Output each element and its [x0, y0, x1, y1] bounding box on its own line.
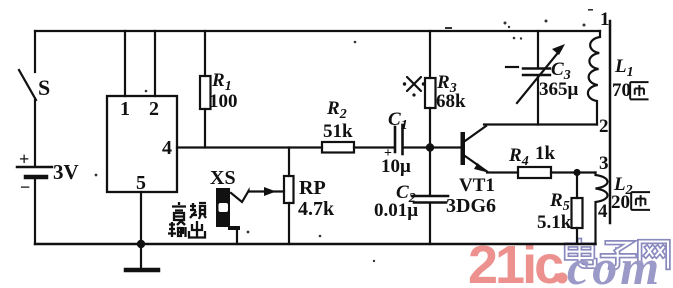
label audio output line2 (shu chu): [168, 221, 205, 238]
svg-text:1k: 1k: [535, 143, 556, 164]
node base junction: [426, 143, 434, 151]
wire emitter rail: [487, 171, 518, 173]
transistor Q1 VT1: [461, 132, 466, 165]
svg-text:4.7k: 4.7k: [298, 198, 335, 220]
wire collector rail: [484, 123, 597, 125]
svg-text:70: 70: [612, 80, 631, 101]
reference mark: [407, 77, 421, 91]
main circuit ink: [17, 21, 610, 270]
node pin5 ground junction: [137, 240, 145, 248]
svg-text:5.1k: 5.1k: [537, 212, 572, 233]
wire pin5 to bottom rail: [140, 192, 142, 244]
resistor R4: [518, 167, 551, 178]
ferrite rod core: [609, 21, 612, 223]
wire bottom rail: [35, 243, 596, 246]
svg-text:2: 2: [149, 98, 159, 120]
svg-text:365μ: 365μ: [539, 79, 579, 100]
switch S blade: [19, 70, 36, 100]
resistor R1: [204, 31, 206, 76]
wire left rail lower: [34, 179, 36, 244]
svg-text:1: 1: [120, 98, 130, 120]
svg-text:−: −: [20, 177, 30, 197]
label audio output line1 (yin pin): [172, 202, 206, 220]
resistor R3: [429, 31, 431, 78]
wire pin4 rail: [177, 146, 322, 148]
svg-text:4: 4: [162, 137, 172, 159]
svg-text:S: S: [38, 75, 50, 100]
wire left rail upper: [34, 31, 36, 72]
svg-text:3: 3: [599, 153, 609, 174]
ground: [140, 244, 142, 269]
svg-text:RP: RP: [299, 177, 326, 199]
svg-text:68k: 68k: [436, 91, 466, 112]
watermark 21ic: [468, 235, 568, 288]
capacitor C1: [394, 127, 397, 152]
wire pin1 to top rail: [124, 31, 126, 96]
capacitor C2: [429, 148, 431, 196]
connector XS jack: [216, 188, 230, 227]
potentiometer RP wiper arrow: [231, 191, 249, 202]
wire top rail: [35, 30, 600, 32]
resistor R2: [322, 142, 354, 153]
wire pin2 to top rail: [154, 31, 156, 96]
svg-text:51k: 51k: [323, 121, 353, 142]
svg-text:XS: XS: [210, 167, 236, 189]
watermark 电子网 outline glyphs: [567, 240, 669, 267]
op-amp U1 IC block: [107, 96, 177, 192]
svg-text:com: com: [567, 239, 662, 288]
inductor L1 coil: [588, 31, 600, 125]
scan noise dots: [95, 9, 593, 262]
glyph zha2: [631, 192, 650, 210]
svg-text:+: +: [384, 146, 392, 161]
capacitor C3 variable: [537, 31, 539, 67]
inductor L2 coil: [596, 173, 608, 245]
svg-text:2: 2: [599, 116, 609, 137]
glyph zha1: [630, 82, 648, 99]
potentiometer RP: [288, 148, 290, 177]
svg-text:VT1: VT1: [459, 175, 495, 196]
wire left rail mid: [34, 100, 36, 166]
svg-text:0.01μ: 0.01μ: [374, 200, 418, 221]
svg-text:3DG6: 3DG6: [446, 195, 496, 217]
svg-text:20: 20: [611, 192, 630, 213]
resistor R5: [573, 169, 580, 176]
svg-text:1: 1: [600, 9, 610, 30]
battery plates: [17, 166, 52, 169]
svg-text:+: +: [19, 149, 29, 169]
svg-text:3V: 3V: [53, 160, 79, 184]
svg-text:100: 100: [209, 91, 238, 112]
svg-text:5: 5: [136, 172, 146, 194]
svg-text:4: 4: [598, 201, 608, 222]
